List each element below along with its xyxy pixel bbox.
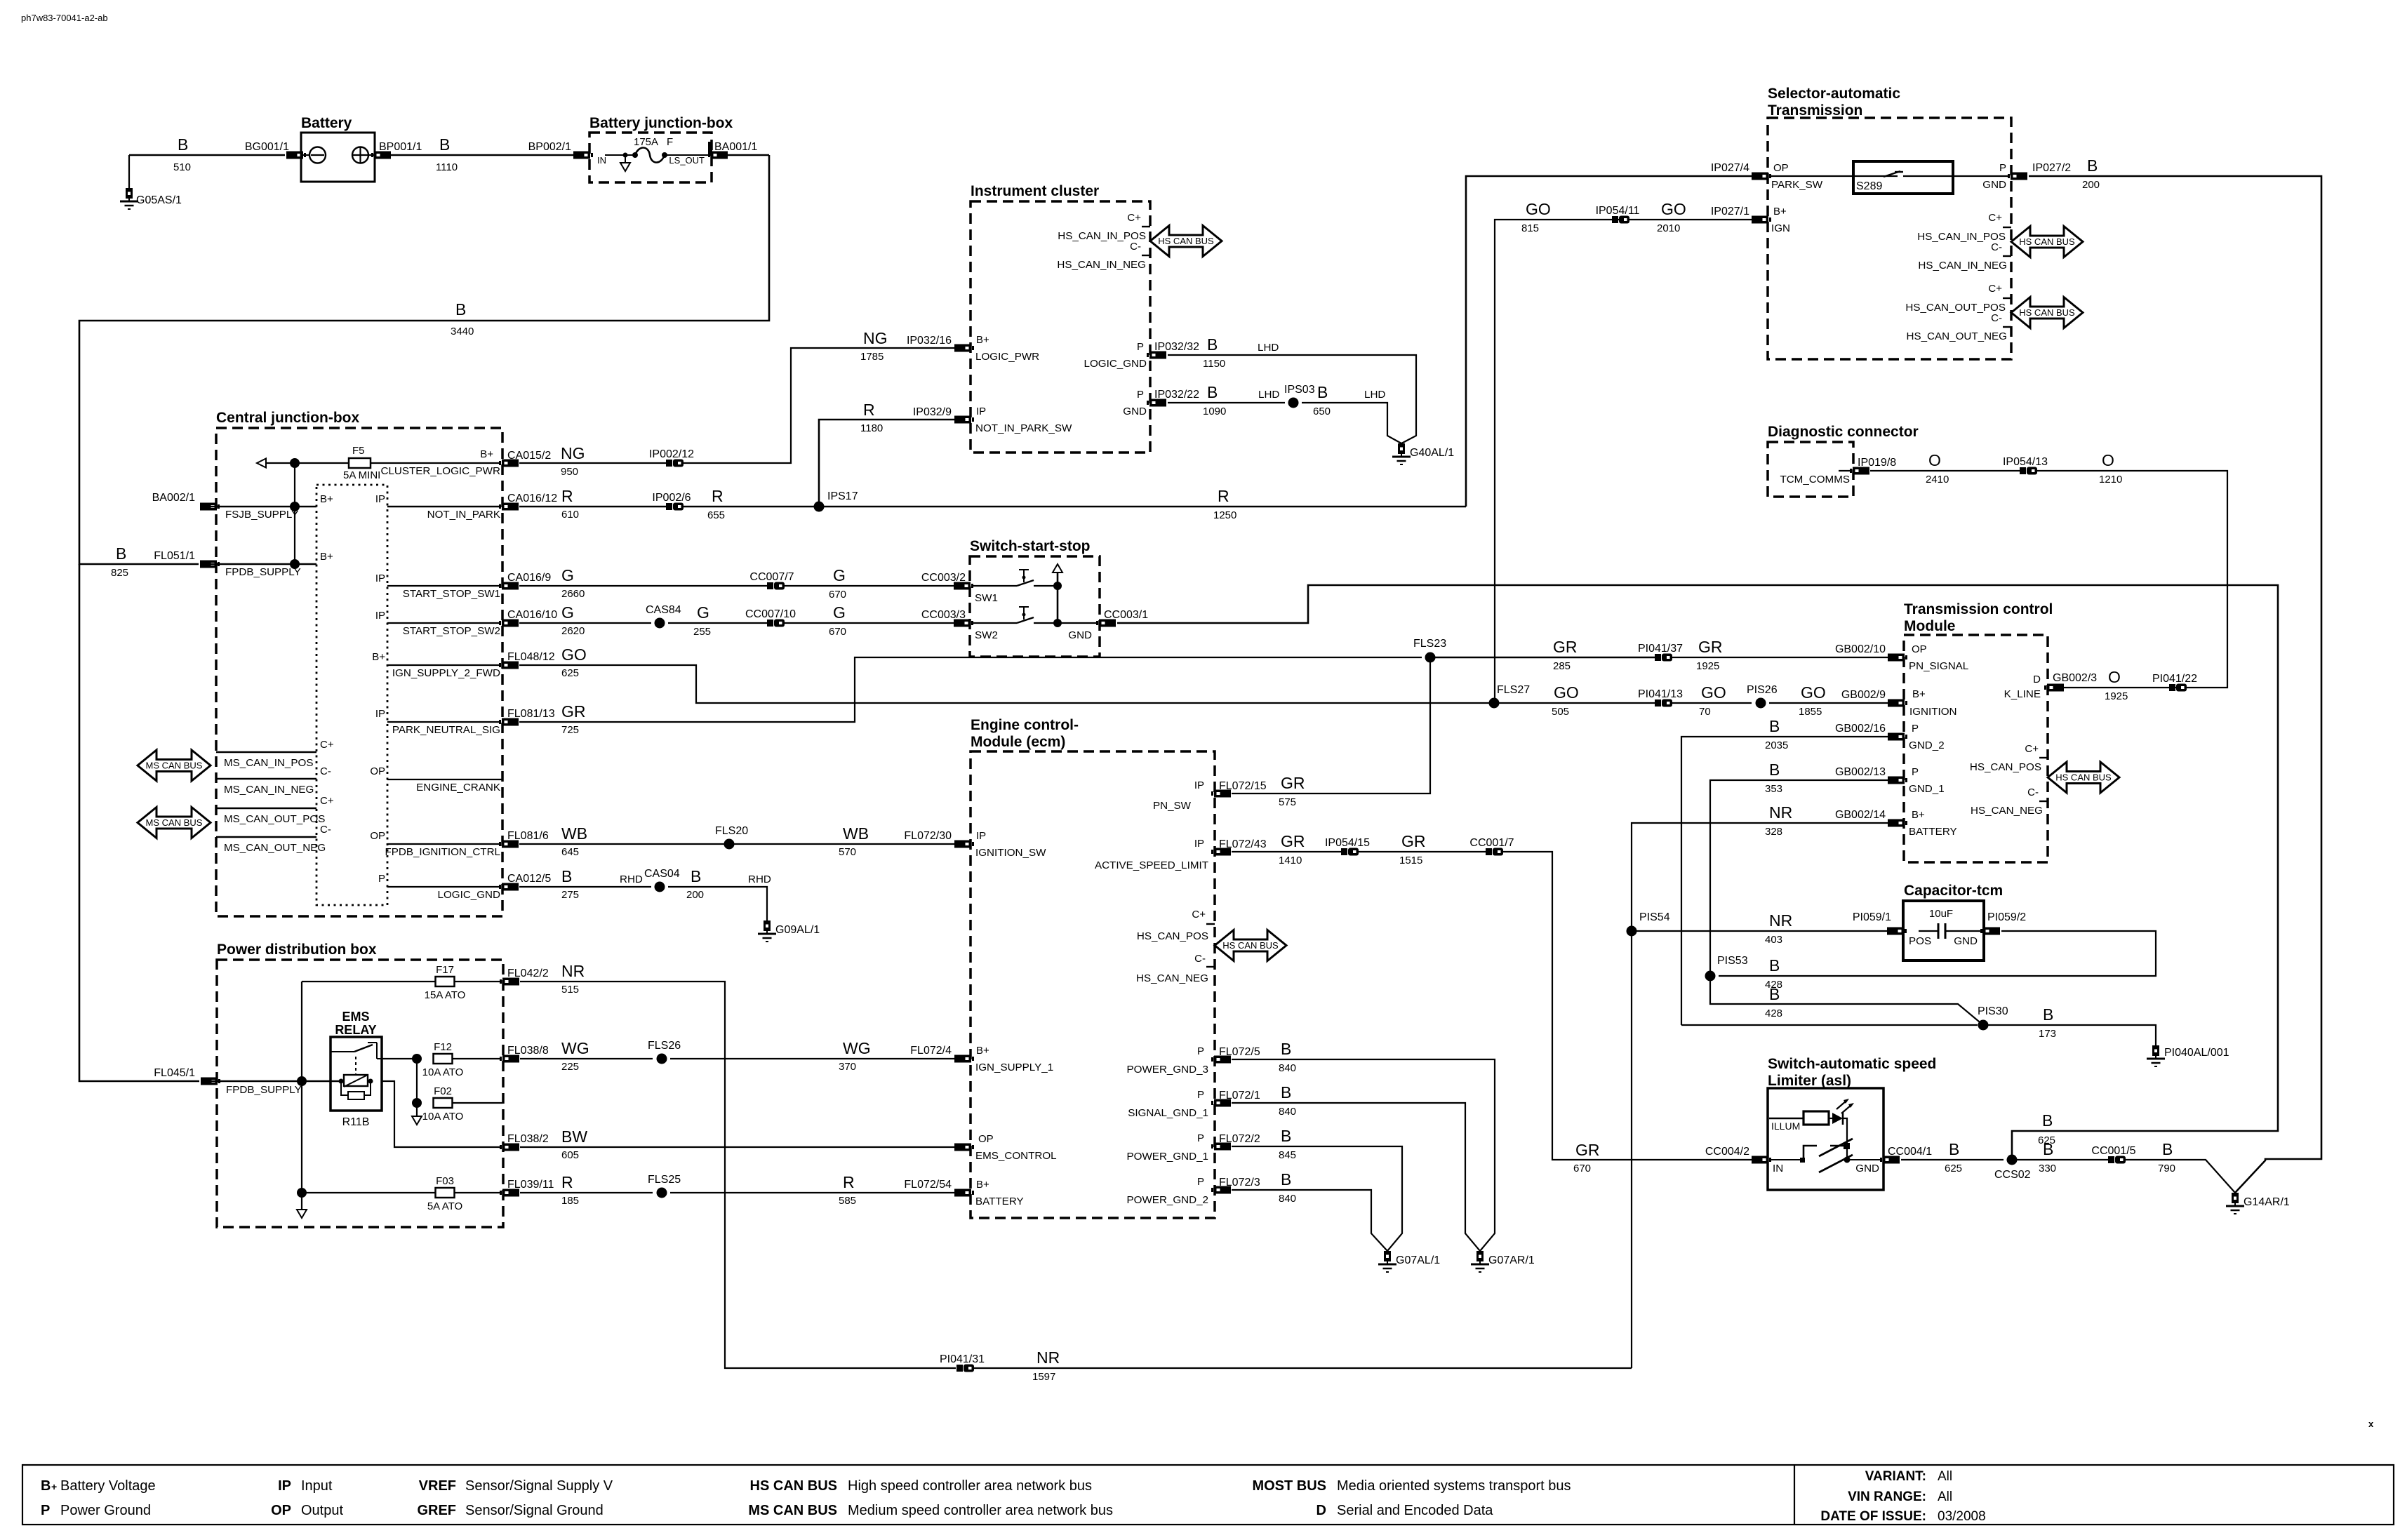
node IP032/22 <box>1147 399 1166 407</box>
svg-text:840: 840 <box>1279 1106 1296 1118</box>
svg-text:FL072/43: FL072/43 <box>1219 838 1267 850</box>
HS CAN stub C- (selector out) <box>2003 326 2011 328</box>
svg-text:GR: GR <box>1281 832 1305 850</box>
wire R 655 <box>684 506 819 508</box>
svg-text:IP: IP <box>1194 838 1204 850</box>
svg-text:285: 285 <box>1553 660 1571 672</box>
wire GR 1410 <box>1232 851 1341 852</box>
svg-text:NR: NR <box>1769 911 1792 930</box>
svg-text:GO: GO <box>1701 683 1726 702</box>
svg-text:G: G <box>561 603 574 622</box>
node BA002/1 <box>200 503 220 511</box>
svg-text:B: B <box>2043 1005 2053 1024</box>
svg-text:P: P <box>378 873 385 885</box>
node IP002/12 <box>666 460 672 467</box>
HS CAN stub C+ (cluster) <box>1142 226 1150 227</box>
node FL072/30 <box>954 841 974 848</box>
svg-text:VREF: VREF <box>419 1478 456 1494</box>
wire G 670 to switch-start-stop SW2 <box>785 622 954 624</box>
svg-text:NR: NR <box>1769 803 1792 822</box>
svg-text:610: 610 <box>561 509 579 521</box>
node CC004/1 <box>1880 1156 1900 1164</box>
engine control module (ecm) <box>971 751 1215 1218</box>
wire START_STOP_SW2 G 2620 <box>387 622 501 624</box>
node PI041/13 <box>1655 699 1661 707</box>
svg-text:GND_1: GND_1 <box>1909 783 1945 795</box>
svg-text:15A ATO: 15A ATO <box>425 989 466 1001</box>
svg-text:MOST BUS: MOST BUS <box>1252 1478 1326 1494</box>
wire ENGINE_CRANK <box>387 779 502 780</box>
svg-text:C+: C+ <box>1127 212 1141 224</box>
wire IGN_SUPPLY_2_FWD GO 625 <box>387 664 501 666</box>
svg-text:FLS26: FLS26 <box>648 1040 681 1052</box>
MS CAN bus stub MS_CAN_OUT_NEG <box>216 836 316 838</box>
svg-text:328: 328 <box>1765 826 1782 838</box>
svg-text:Transmission control: Transmission control <box>1904 601 2053 617</box>
svg-text:FL072/54: FL072/54 <box>904 1179 952 1191</box>
svg-text:370: 370 <box>839 1061 856 1073</box>
HS CAN BUS arrow (ecm) <box>1215 930 1286 961</box>
svg-text:GND: GND <box>1855 1163 1879 1174</box>
selector-automatic transmission module <box>1768 118 2011 359</box>
svg-text:BA002/1: BA002/1 <box>152 492 195 504</box>
svg-text:High speed controller area net: High speed controller area network bus <box>848 1478 1092 1494</box>
HS CAN BUS arrow (selector out) <box>2011 297 2083 328</box>
svg-text:POWER_GND_3: POWER_GND_3 <box>1127 1064 1208 1076</box>
node BA001/1 <box>708 142 712 156</box>
svg-text:OP: OP <box>1773 162 1789 174</box>
svg-text:R: R <box>561 487 573 505</box>
svg-text:P: P <box>1197 1089 1204 1101</box>
svg-text:C+: C+ <box>320 795 334 807</box>
svg-text:C-: C- <box>320 824 331 836</box>
svg-text:428: 428 <box>1765 1007 1782 1019</box>
svg-text:FL048/12: FL048/12 <box>507 651 555 663</box>
svg-text:GR: GR <box>561 702 586 721</box>
svg-text:C-: C- <box>320 765 331 777</box>
wire NR 328 to TCM BATTERY <box>1632 823 1888 1368</box>
svg-text:FPDB_SUPPLY: FPDB_SUPPLY <box>225 566 301 578</box>
wire to ground G05AS/1 <box>128 155 130 188</box>
svg-text:P: P <box>1999 162 2006 174</box>
ground G07AL/1 <box>1384 1251 1391 1261</box>
node FL045/1 <box>201 1078 220 1085</box>
svg-text:B: B <box>1949 1140 1959 1158</box>
splice IPS17 <box>814 502 825 512</box>
svg-text:255: 255 <box>693 626 711 638</box>
svg-text:LHD: LHD <box>1258 342 1279 354</box>
svg-text:HS_CAN_IN_NEG: HS_CAN_IN_NEG <box>1918 260 2007 272</box>
svg-text:IP: IP <box>375 573 385 584</box>
node CC001/5 <box>2108 1156 2114 1163</box>
power distribution box <box>217 960 503 1227</box>
svg-text:FL038/2: FL038/2 <box>507 1133 549 1145</box>
svg-text:IP032/9: IP032/9 <box>913 406 952 418</box>
svg-text:HS_CAN_NEG: HS_CAN_NEG <box>1971 805 2043 817</box>
svg-text:HS_CAN_POS: HS_CAN_POS <box>1970 761 2041 773</box>
instrument cluster module <box>971 201 1150 453</box>
svg-text:HS CAN BUS: HS CAN BUS <box>750 1478 837 1494</box>
node BP001/1 <box>371 152 391 159</box>
node CC001/7 <box>1486 848 1492 855</box>
svg-text:GR: GR <box>1575 1141 1600 1159</box>
node IP032/9 <box>954 416 974 424</box>
svg-text:1515: 1515 <box>1399 855 1422 866</box>
svg-text:C-: C- <box>1130 241 1141 253</box>
node FL081/13 <box>499 718 519 726</box>
HS CAN BUS arrow (cluster) <box>1150 226 1222 257</box>
svg-text:IP: IP <box>976 406 986 417</box>
svg-text:650: 650 <box>1313 406 1331 417</box>
svg-text:G07AL/1: G07AL/1 <box>1396 1254 1440 1266</box>
svg-text:670: 670 <box>829 589 846 601</box>
svg-text:B: B <box>1281 1040 1291 1058</box>
wire LOGIC_GND B 275 RHD <box>387 886 501 888</box>
wire BW 605 to ECM EMS_CONTROL <box>520 1146 955 1148</box>
svg-text:825: 825 <box>111 567 128 579</box>
node PI041/22 <box>2169 684 2175 691</box>
wire B 1090 LHD <box>1168 402 1285 403</box>
svg-text:CC003/2: CC003/2 <box>921 572 966 584</box>
svg-text:B+: B+ <box>976 334 989 346</box>
node FL072/2 POWER_GND_1 <box>1211 1143 1231 1151</box>
wire R 1250 to selector park switch <box>819 506 1466 508</box>
svg-text:B: B <box>2043 1140 2053 1158</box>
node CA016/9 <box>499 582 519 590</box>
svg-text:MS_CAN_OUT_NEG: MS_CAN_OUT_NEG <box>224 842 326 854</box>
svg-text:IP032/32: IP032/32 <box>1154 341 1199 353</box>
svg-text:Battery Voltage: Battery Voltage <box>60 1478 156 1494</box>
node GB002/13 <box>1888 777 1907 784</box>
svg-text:CAS04: CAS04 <box>644 868 680 880</box>
svg-text:WB: WB <box>561 824 587 843</box>
wire B 173 to PI040AL/001 <box>1983 1025 2156 1045</box>
svg-text:510: 510 <box>173 161 191 173</box>
splice CCS02 <box>2007 1155 2018 1165</box>
svg-text:3440: 3440 <box>451 326 474 337</box>
svg-text:G: G <box>833 603 846 622</box>
svg-text:FPDB_IGNITION_CTRL: FPDB_IGNITION_CTRL <box>385 846 500 858</box>
svg-text:OP: OP <box>271 1503 291 1518</box>
svg-text:SW2: SW2 <box>975 629 998 641</box>
wire GO 815 ignition feed <box>1495 220 1752 703</box>
svg-text:ph7w83-70041-a2-ab: ph7w83-70041-a2-ab <box>21 13 108 23</box>
svg-text:R: R <box>712 487 724 505</box>
svg-text:FL045/1: FL045/1 <box>154 1067 195 1079</box>
svg-text:403: 403 <box>1765 934 1782 946</box>
svg-text:NOT_IN_PARK_SW: NOT_IN_PARK_SW <box>975 422 1072 434</box>
switch S289 park switch <box>1769 175 1867 177</box>
svg-text:HS_CAN_POS: HS_CAN_POS <box>1137 930 1208 942</box>
HS CAN BUS arrow (selector in) <box>2011 227 2083 257</box>
svg-text:GB002/14: GB002/14 <box>1835 809 1886 821</box>
switch-automatic speed limiter (asl) <box>1768 1088 1884 1190</box>
svg-text:F: F <box>667 136 673 148</box>
splice CAS84 <box>655 618 665 629</box>
svg-text:575: 575 <box>1279 796 1296 808</box>
svg-text:CC001/5: CC001/5 <box>2091 1145 2135 1157</box>
svg-text:FL072/2: FL072/2 <box>1219 1133 1260 1145</box>
wire FPDB_SUPPLY <box>201 563 316 565</box>
svg-text:R: R <box>863 401 875 419</box>
svg-text:B: B <box>1207 383 1218 401</box>
svg-text:POWER_GND_2: POWER_GND_2 <box>1127 1194 1208 1206</box>
svg-text:All: All <box>1938 1489 1952 1504</box>
svg-text:BA001/1: BA001/1 <box>714 141 757 153</box>
node BP002/1 <box>573 152 593 159</box>
node FL072/15 PN_SW <box>1211 790 1231 798</box>
wire B 1110 (battery to battery junction-box) <box>391 154 575 156</box>
svg-text:1785: 1785 <box>860 351 884 363</box>
HS CAN stub C+ (ecm) <box>1206 923 1215 925</box>
svg-text:Switch-start-stop: Switch-start-stop <box>970 538 1091 554</box>
node FL072/5 POWER_GND_3 <box>1211 1056 1231 1064</box>
svg-text:GR: GR <box>1281 774 1305 792</box>
svg-text:C+: C+ <box>2025 743 2039 755</box>
svg-text:1250: 1250 <box>1213 509 1236 521</box>
wire B 650 LHD to G40AL/1 <box>1302 403 1401 443</box>
svg-text:Battery: Battery <box>301 115 352 131</box>
svg-text:2010: 2010 <box>1657 222 1680 234</box>
wire capacitor ground loop to PIS53 <box>1719 931 2156 976</box>
svg-text:P: P <box>1197 1132 1204 1144</box>
HS CAN BUS arrow (tcm) <box>2048 762 2119 793</box>
svg-text:1180: 1180 <box>860 422 883 434</box>
node PI041/37 <box>1655 654 1661 661</box>
svg-text:NR: NR <box>561 962 585 980</box>
svg-text:B+: B+ <box>372 651 385 663</box>
node CA015/2 <box>499 460 519 467</box>
svg-text:FL081/6: FL081/6 <box>507 830 549 842</box>
svg-text:D: D <box>2033 674 2041 685</box>
svg-text:B: B <box>1769 985 1780 1003</box>
node PI059/2 <box>1980 928 2000 935</box>
node CC003/2 <box>954 582 973 590</box>
HS CAN stub C- (ecm) <box>1206 966 1215 967</box>
node IP027/4 <box>1752 173 1771 180</box>
svg-text:EMS_CONTROL: EMS_CONTROL <box>975 1150 1057 1162</box>
svg-text:MS CAN BUS: MS CAN BUS <box>146 817 203 828</box>
svg-text:790: 790 <box>2158 1163 2175 1174</box>
svg-text:IP: IP <box>278 1478 291 1494</box>
svg-text:IN: IN <box>1773 1163 1783 1174</box>
node CC007/7 <box>767 582 773 589</box>
ASL switch contact <box>1769 1159 1801 1160</box>
svg-text:TCM_COMMS: TCM_COMMS <box>1780 474 1850 486</box>
svg-text:1410: 1410 <box>1279 855 1302 866</box>
node IP032/16 <box>954 344 974 352</box>
wire B 840 power ground 2 <box>1232 1190 1387 1251</box>
svg-text:1855: 1855 <box>1799 706 1822 718</box>
svg-text:Serial and Encoded Data: Serial and Encoded Data <box>1337 1503 1493 1518</box>
svg-text:PIS53: PIS53 <box>1717 955 1748 967</box>
svg-text:515: 515 <box>561 984 579 996</box>
wire B 510 (ground to battery) <box>129 154 285 156</box>
svg-text:O: O <box>1928 451 1941 469</box>
svg-text:FSJB_SUPPLY: FSJB_SUPPLY <box>225 509 298 521</box>
svg-text:IP002/6: IP002/6 <box>652 492 691 504</box>
svg-text:C-: C- <box>1194 953 1206 965</box>
svg-text:1090: 1090 <box>1203 406 1226 417</box>
svg-text:K_LINE: K_LINE <box>2004 688 2041 700</box>
node CA012/5 <box>499 883 519 891</box>
svg-text:IP: IP <box>375 493 385 505</box>
svg-text:GB002/9: GB002/9 <box>1841 689 1886 701</box>
MS CAN BUS arrow (out) <box>138 808 211 838</box>
svg-text:IPS17: IPS17 <box>827 490 858 502</box>
svg-text:2660: 2660 <box>561 588 585 600</box>
wire GR 670 to ASL switch <box>1503 852 1752 1160</box>
svg-text:PN_SIGNAL: PN_SIGNAL <box>1909 660 1968 672</box>
wire B 353 to TCM GND_1 <box>1710 780 1888 976</box>
switch SW1 contact <box>972 585 1017 587</box>
svg-text:173: 173 <box>2039 1028 2056 1040</box>
svg-text:B: B <box>455 300 466 319</box>
svg-text:B: B <box>1769 761 1780 779</box>
svg-text:Input: Input <box>301 1478 333 1494</box>
wire B 428 to PIS30 <box>1710 976 1983 1025</box>
node CC004/2 <box>1752 1156 1771 1164</box>
svg-text:FLS27: FLS27 <box>1497 684 1530 696</box>
svg-text:Selector-automatic: Selector-automatic <box>1768 86 1900 102</box>
wire FPDB_IGNITION_CTRL WB 645 <box>387 843 501 845</box>
svg-text:x: x <box>2368 1419 2374 1429</box>
svg-text:B: B <box>439 135 450 154</box>
svg-text:BG001/1: BG001/1 <box>245 141 289 153</box>
svg-text:Capacitor-tcm: Capacitor-tcm <box>1904 883 2003 899</box>
wire GO 1855 to TCM IGNITION <box>1769 702 1888 704</box>
svg-text:505: 505 <box>1552 706 1569 718</box>
svg-text:O: O <box>2102 451 2114 469</box>
svg-text:FLS23: FLS23 <box>1413 638 1446 650</box>
svg-text:POS: POS <box>1909 935 1931 947</box>
svg-text:570: 570 <box>839 846 856 858</box>
svg-text:605: 605 <box>561 1149 579 1161</box>
svg-text:CA016/10: CA016/10 <box>507 609 557 621</box>
svg-text:C+: C+ <box>1988 283 2002 295</box>
svg-text:FL081/13: FL081/13 <box>507 708 555 720</box>
svg-text:Diagnostic connector: Diagnostic connector <box>1768 424 1919 440</box>
svg-text:B+: B+ <box>320 551 333 563</box>
svg-text:CC007/10: CC007/10 <box>745 608 796 620</box>
HS CAN stub C- (tcm) <box>2039 801 2048 802</box>
svg-text:PI059/2: PI059/2 <box>1987 911 2026 923</box>
svg-text:IN: IN <box>597 155 606 166</box>
svg-text:GND: GND <box>1068 629 1092 641</box>
svg-text:2035: 2035 <box>1765 739 1788 751</box>
svg-text:FL039/11: FL039/11 <box>507 1179 554 1191</box>
svg-text:MS CAN BUS: MS CAN BUS <box>146 761 203 771</box>
svg-text:IGNITION: IGNITION <box>1909 706 1957 718</box>
svg-text:G14AR/1: G14AR/1 <box>2244 1196 2290 1208</box>
svg-text:HS_CAN_OUT_NEG: HS_CAN_OUT_NEG <box>1907 330 2007 342</box>
svg-text:1925: 1925 <box>2105 690 2128 702</box>
svg-text:START_STOP_SW2: START_STOP_SW2 <box>403 625 500 637</box>
wire GR 1925 to TCM PN_SIGNAL <box>1672 657 1888 658</box>
wire GR 575 from FLS23 <box>1232 657 1430 794</box>
svg-text:IP027/1: IP027/1 <box>1711 206 1749 217</box>
svg-text:2410: 2410 <box>1926 474 1949 486</box>
svg-text:IP054/13: IP054/13 <box>2003 456 2048 468</box>
svg-text:P: P <box>1137 341 1144 353</box>
svg-text:PARK_NEUTRAL_SIG: PARK_NEUTRAL_SIG <box>392 724 500 736</box>
svg-text:1210: 1210 <box>2099 474 2122 486</box>
HS CAN stub C+ (tcm) <box>2039 757 2048 758</box>
svg-text:Media oriented systems transpo: Media oriented systems transport bus <box>1337 1478 1571 1494</box>
MS CAN bus stub MS_CAN_IN_POS <box>216 751 316 753</box>
wire NG 1785 to instrument cluster <box>684 348 955 463</box>
splice PIS53 <box>1705 971 1716 982</box>
svg-text:B: B <box>691 867 701 885</box>
svg-text:IP002/12: IP002/12 <box>649 448 694 460</box>
svg-text:MS_CAN_IN_NEG: MS_CAN_IN_NEG <box>224 784 314 796</box>
svg-text:G40AL/1: G40AL/1 <box>1410 447 1454 459</box>
svg-text:C-: C- <box>1991 312 2002 324</box>
svg-text:5A ATO: 5A ATO <box>427 1200 462 1212</box>
ground G09AL/1 <box>764 920 771 931</box>
svg-text:Engine control-: Engine control- <box>971 717 1079 733</box>
svg-text:670: 670 <box>829 626 846 638</box>
svg-text:Power Ground: Power Ground <box>60 1503 151 1518</box>
svg-text:P: P <box>1197 1045 1204 1057</box>
svg-text:B: B <box>1769 717 1780 735</box>
node IP019/8 <box>1839 470 1852 471</box>
svg-text:G07AR/1: G07AR/1 <box>1488 1254 1535 1266</box>
MS CAN bus stub MS_CAN_IN_NEG <box>216 778 316 779</box>
svg-text:BW: BW <box>561 1127 587 1146</box>
svg-text:1597: 1597 <box>1032 1371 1055 1383</box>
svg-text:IP027/4: IP027/4 <box>1711 162 1749 174</box>
svg-text:Power distribution box: Power distribution box <box>217 942 377 958</box>
node FL048/12 <box>499 662 519 669</box>
svg-text:All: All <box>1938 1469 1952 1484</box>
svg-text:CA016/9: CA016/9 <box>507 572 551 584</box>
svg-text:G: G <box>697 603 709 622</box>
wire B 330 <box>2012 1159 2108 1160</box>
svg-text:EMS: EMS <box>342 1010 369 1024</box>
PDB internal supply column <box>301 982 302 1193</box>
wire switch ground to CCS02 (via right margin) <box>1117 585 2278 1160</box>
svg-text:BATTERY: BATTERY <box>975 1196 1024 1207</box>
svg-text:D: D <box>1316 1503 1326 1518</box>
svg-text:B: B <box>1281 1127 1291 1145</box>
node IP054/11 <box>1612 216 1618 223</box>
svg-text:IP027/2: IP027/2 <box>2032 162 2071 174</box>
node PI059/1 <box>1887 928 1907 935</box>
svg-text:P: P <box>1912 723 1919 735</box>
svg-text:B: B <box>2087 156 2098 175</box>
svg-text:IP: IP <box>976 830 986 842</box>
svg-text:RHD: RHD <box>748 873 771 885</box>
svg-text:GO: GO <box>1526 200 1551 218</box>
svg-text:LOGIC_GND: LOGIC_GND <box>1084 358 1147 370</box>
svg-text:845: 845 <box>1279 1149 1296 1161</box>
node GB002/16 <box>1888 733 1907 741</box>
svg-text:B: B <box>1281 1083 1291 1102</box>
svg-text:HS_CAN_NEG: HS_CAN_NEG <box>1136 972 1208 984</box>
wire via fuse F17 NR 515 <box>302 981 436 982</box>
node CC003/3 <box>954 620 973 627</box>
svg-text:725: 725 <box>561 724 579 736</box>
node FL072/54 <box>954 1189 974 1197</box>
svg-text:B+: B+ <box>1912 809 1925 821</box>
svg-text:BP002/1: BP002/1 <box>528 141 571 153</box>
svg-text:Instrument cluster: Instrument cluster <box>971 183 1099 199</box>
central junction-box <box>216 428 502 916</box>
svg-text:Module (ecm): Module (ecm) <box>971 734 1065 750</box>
svg-text:IP: IP <box>375 610 385 622</box>
MS CAN bus stub MS_CAN_OUT_POS <box>216 808 316 809</box>
